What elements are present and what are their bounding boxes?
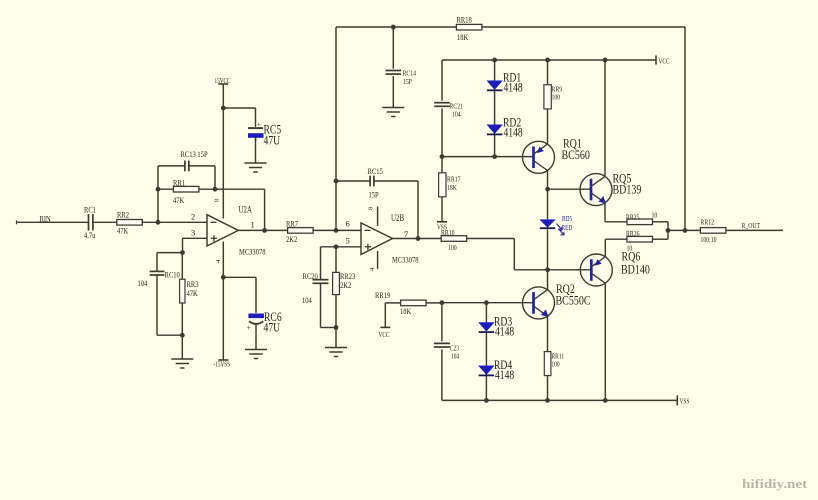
svg-text:47K: 47K bbox=[117, 226, 129, 236]
svg-text:2K2: 2K2 bbox=[340, 280, 351, 290]
svg-text:100: 100 bbox=[552, 361, 560, 369]
svg-text:RR7: RR7 bbox=[286, 219, 298, 229]
svg-text:+: + bbox=[257, 120, 261, 129]
svg-text:hifidiy.net: hifidiy.net bbox=[742, 477, 808, 491]
svg-text:RR11: RR11 bbox=[552, 353, 565, 361]
svg-text:15P: 15P bbox=[403, 77, 412, 86]
svg-text:100:10: 100:10 bbox=[701, 235, 717, 244]
svg-text:7: 7 bbox=[404, 229, 408, 239]
svg-text:C23: C23 bbox=[450, 345, 459, 353]
svg-text:+: + bbox=[247, 323, 251, 332]
svg-text:2: 2 bbox=[191, 212, 195, 222]
svg-text:10: 10 bbox=[652, 211, 658, 220]
svg-text:8: 8 bbox=[214, 199, 221, 202]
svg-text:MC33078: MC33078 bbox=[239, 247, 266, 257]
svg-text:U2A: U2A bbox=[239, 205, 253, 215]
svg-text:18K: 18K bbox=[400, 306, 412, 316]
svg-text:104: 104 bbox=[451, 353, 459, 361]
svg-text:18K: 18K bbox=[457, 32, 469, 42]
svg-text:RR25: RR25 bbox=[626, 213, 640, 222]
svg-text:R_OUT: R_OUT bbox=[742, 221, 761, 230]
svg-text:100: 100 bbox=[448, 243, 457, 252]
svg-text:4148: 4148 bbox=[495, 368, 514, 382]
svg-text:RR18: RR18 bbox=[457, 15, 472, 25]
svg-text:BD139: BD139 bbox=[613, 182, 642, 197]
svg-text:4148: 4148 bbox=[504, 81, 523, 95]
svg-text:4148: 4148 bbox=[504, 126, 523, 140]
svg-text:47U: 47U bbox=[264, 134, 281, 148]
svg-text:6: 6 bbox=[346, 219, 350, 229]
svg-text:5: 5 bbox=[346, 236, 350, 246]
svg-text:RC13 15P: RC13 15P bbox=[181, 149, 208, 159]
svg-text:104: 104 bbox=[452, 110, 461, 119]
svg-text:RC10: RC10 bbox=[165, 270, 180, 280]
svg-text:104: 104 bbox=[138, 278, 148, 288]
svg-text:-15VSS: -15VSS bbox=[214, 362, 231, 369]
svg-text:3: 3 bbox=[191, 228, 195, 238]
svg-text:RD5: RD5 bbox=[562, 215, 573, 223]
svg-text:15VCC: 15VCC bbox=[215, 78, 231, 85]
svg-text:RR10: RR10 bbox=[441, 228, 455, 237]
svg-text:4148: 4148 bbox=[495, 325, 514, 339]
svg-text:RIN: RIN bbox=[40, 214, 51, 224]
svg-text:MC33078: MC33078 bbox=[392, 255, 419, 265]
svg-text:4.7u: 4.7u bbox=[84, 230, 96, 240]
svg-text:VSS: VSS bbox=[680, 398, 690, 406]
svg-text:RC15: RC15 bbox=[368, 166, 383, 176]
svg-text:47K: 47K bbox=[187, 288, 199, 298]
svg-text:BD140: BD140 bbox=[621, 262, 650, 277]
svg-text:2K2: 2K2 bbox=[286, 234, 297, 244]
svg-text:RR26: RR26 bbox=[626, 229, 640, 238]
svg-text:VCC: VCC bbox=[659, 58, 670, 66]
svg-text:RC1: RC1 bbox=[84, 205, 96, 215]
svg-text:VCC: VCC bbox=[379, 331, 390, 339]
svg-text:47U: 47U bbox=[264, 321, 281, 335]
svg-text:RR19: RR19 bbox=[375, 290, 390, 300]
svg-text:RR12: RR12 bbox=[701, 218, 715, 227]
svg-text:47K: 47K bbox=[173, 195, 185, 205]
svg-text:15P: 15P bbox=[369, 190, 379, 200]
svg-text:104: 104 bbox=[302, 295, 312, 305]
svg-text:U2B: U2B bbox=[391, 213, 404, 223]
svg-text:18K: 18K bbox=[447, 183, 457, 192]
svg-text:8: 8 bbox=[368, 207, 375, 210]
svg-text:RC20: RC20 bbox=[303, 271, 318, 281]
svg-text:100: 100 bbox=[552, 93, 561, 102]
svg-text:RED: RED bbox=[562, 224, 573, 232]
svg-text:10: 10 bbox=[627, 244, 633, 253]
svg-text:BC560: BC560 bbox=[562, 147, 590, 162]
svg-text:1: 1 bbox=[251, 220, 255, 230]
svg-text:RR2: RR2 bbox=[117, 210, 129, 220]
svg-text:RR1: RR1 bbox=[173, 178, 185, 188]
svg-text:BC550C: BC550C bbox=[556, 293, 591, 308]
